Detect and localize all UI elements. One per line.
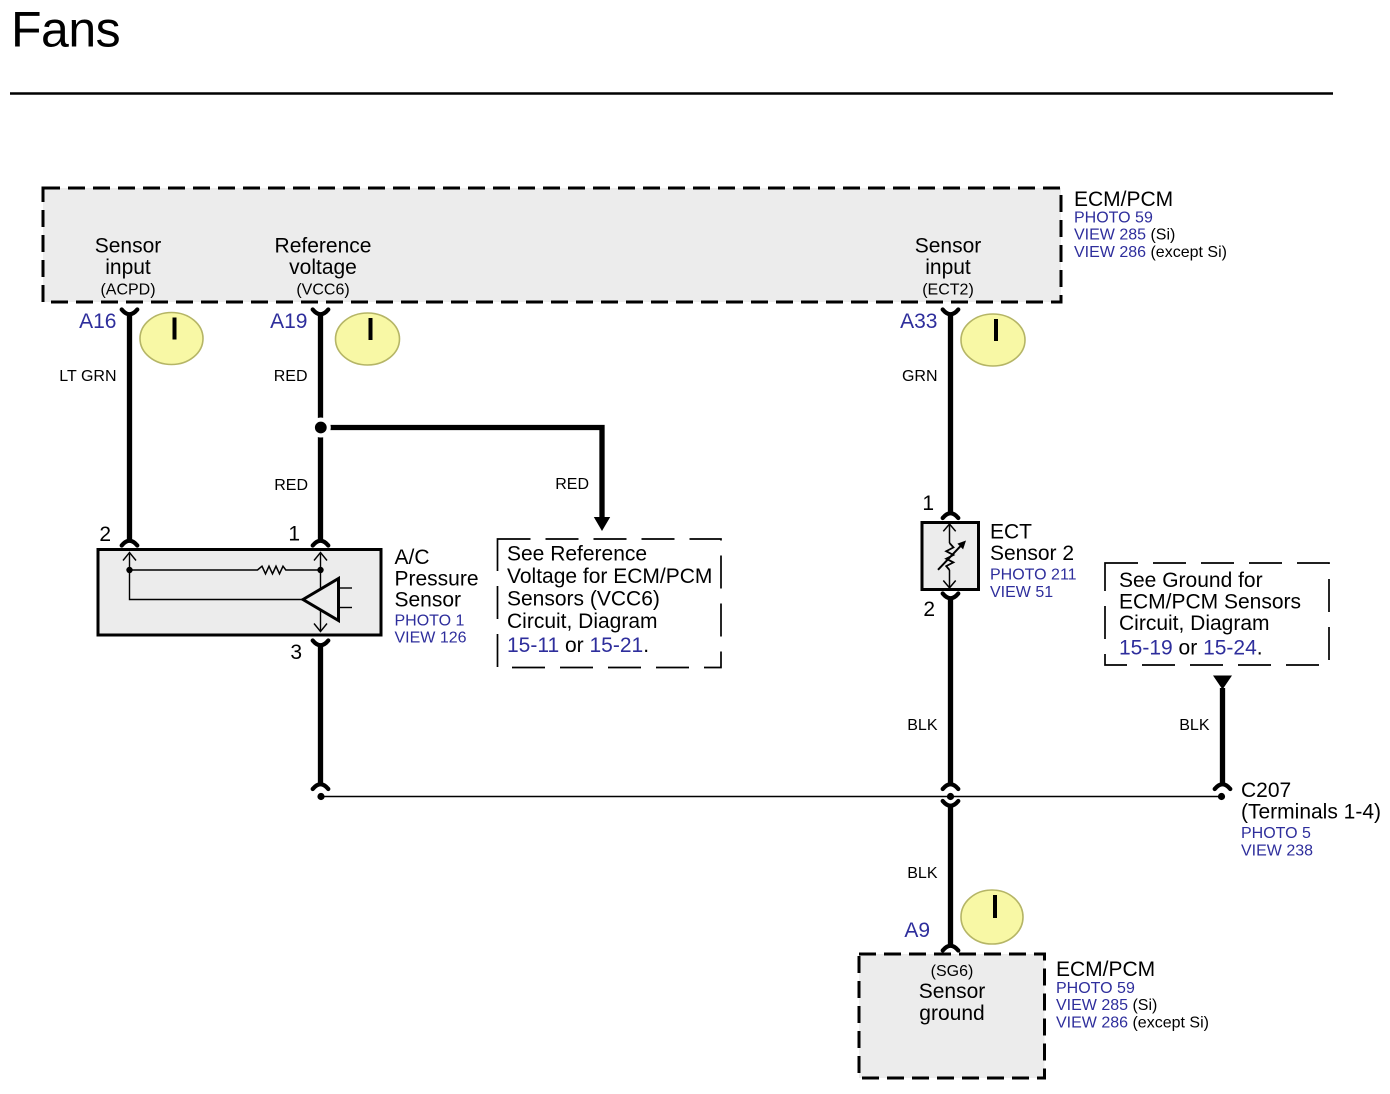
svg-text:voltage: voltage bbox=[289, 256, 357, 279]
svg-text:BLK: BLK bbox=[1179, 717, 1210, 734]
svg-text:A19: A19 bbox=[270, 310, 307, 333]
svg-text:BLK: BLK bbox=[907, 717, 938, 734]
svg-text:input: input bbox=[925, 256, 971, 279]
svg-text:See Ground for: See Ground for bbox=[1119, 569, 1263, 592]
connector symbol A16 (yellow) bbox=[140, 313, 203, 365]
svg-text:A/C: A/C bbox=[395, 546, 430, 569]
svg-text:(Terminals 1-4): (Terminals 1-4) bbox=[1241, 801, 1381, 824]
svg-text:RED: RED bbox=[274, 368, 308, 385]
label: Reference voltage (VCC6) bbox=[275, 235, 372, 299]
svg-text:3: 3 bbox=[290, 641, 302, 664]
svg-text:ECM/PCM Sensors: ECM/PCM Sensors bbox=[1119, 591, 1301, 614]
internal feedback line to amplifier bbox=[130, 570, 304, 600]
connector line C207 bbox=[321, 796, 1222, 798]
svg-text:Reference: Reference bbox=[275, 235, 372, 258]
pin A19 fork bbox=[313, 310, 329, 315]
label: ECM/PCM (top right) bbox=[1074, 188, 1227, 261]
pin A9 fork bbox=[943, 946, 959, 951]
svg-text:15-11 or 15-21.: 15-11 or 15-21. bbox=[507, 634, 649, 657]
label: C207 (Terminals 1-4) bbox=[1241, 779, 1381, 860]
svg-text:C207: C207 bbox=[1241, 779, 1291, 802]
svg-text:(ACPD): (ACPD) bbox=[100, 282, 155, 299]
branch wire RED to reference-voltage note bbox=[321, 428, 611, 532]
ECM/PCM connector box (top) bbox=[43, 188, 1061, 302]
svg-text:VIEW 285 (Si): VIEW 285 (Si) bbox=[1056, 997, 1157, 1014]
ECM/PCM sensor ground box (bottom) bbox=[859, 954, 1045, 1078]
wire LT GRN (A16 to A/C sensor pin 2) bbox=[127, 315, 132, 540]
A/C pressure sensor box bbox=[98, 550, 381, 636]
fork at C207 (left) bbox=[313, 784, 329, 789]
connector symbol A33 (yellow) bbox=[961, 314, 1025, 366]
svg-text:Sensor: Sensor bbox=[95, 235, 162, 258]
A/C sensor pin 1 fork bbox=[313, 541, 329, 546]
svg-text:PHOTO 5: PHOTO 5 bbox=[1241, 825, 1311, 842]
internal arrow up (pin 2) bbox=[123, 553, 136, 571]
internal node dot (pin 2) bbox=[126, 567, 132, 573]
svg-text:1: 1 bbox=[922, 492, 934, 515]
svg-text:PHOTO 1: PHOTO 1 bbox=[395, 613, 465, 630]
svg-text:Sensor: Sensor bbox=[919, 980, 986, 1003]
svg-text:Sensor: Sensor bbox=[395, 589, 462, 612]
svg-text:Sensor 2: Sensor 2 bbox=[990, 542, 1074, 565]
wire BLK (C207 to A9) bbox=[948, 807, 953, 945]
note box: See Reference Voltage bbox=[498, 539, 722, 668]
junction dot C207 middle bbox=[947, 793, 954, 800]
junction dot C207 right bbox=[1218, 793, 1225, 800]
note box: See Ground bbox=[1105, 563, 1329, 665]
svg-text:Circuit, Diagram: Circuit, Diagram bbox=[507, 610, 658, 633]
svg-text:VIEW 51: VIEW 51 bbox=[990, 584, 1053, 601]
svg-text:ECM/PCM: ECM/PCM bbox=[1056, 958, 1155, 981]
svg-text:input: input bbox=[105, 256, 151, 279]
svg-text:Circuit, Diagram: Circuit, Diagram bbox=[1119, 612, 1270, 635]
svg-text:Voltage for ECM/PCM: Voltage for ECM/PCM bbox=[507, 565, 712, 588]
svg-text:A33: A33 bbox=[900, 310, 937, 333]
svg-text:2: 2 bbox=[99, 523, 111, 546]
thermistor symbol bbox=[938, 524, 966, 588]
svg-text:Fans: Fans bbox=[11, 2, 120, 58]
label: Sensor input (ACPD) bbox=[95, 235, 162, 299]
ECT sensor 2 box bbox=[922, 523, 979, 590]
svg-text:RED: RED bbox=[555, 476, 589, 493]
label: A/C Pressure Sensor bbox=[395, 546, 479, 647]
label: ECT Sensor 2 bbox=[990, 521, 1077, 602]
svg-text:ECM/PCM: ECM/PCM bbox=[1074, 188, 1173, 211]
svg-text:VIEW 126: VIEW 126 bbox=[395, 630, 467, 647]
svg-text:(ECT2): (ECT2) bbox=[922, 282, 974, 299]
svg-text:Sensor: Sensor bbox=[915, 235, 982, 258]
title underline bbox=[10, 92, 1333, 95]
svg-text:GRN: GRN bbox=[902, 368, 938, 385]
pin A33 fork bbox=[943, 310, 959, 315]
ECT pin 2 fork bbox=[943, 594, 959, 599]
fork at C207 (middle top) bbox=[943, 784, 959, 789]
label: Sensor input (ECT2) bbox=[915, 235, 982, 299]
svg-text:VIEW 238: VIEW 238 bbox=[1241, 843, 1313, 860]
svg-text:PHOTO 211: PHOTO 211 bbox=[990, 567, 1077, 584]
arrow from ground note into BLK wire bbox=[1213, 676, 1232, 690]
label: ECM/PCM (bottom right) bbox=[1056, 958, 1209, 1032]
label: (SG6) Sensor ground bbox=[919, 963, 986, 1025]
wire BLK (ground note to C207) bbox=[1220, 688, 1225, 783]
svg-text:RED: RED bbox=[274, 477, 308, 494]
svg-text:BLK: BLK bbox=[907, 865, 938, 882]
wire RED (A19 to A/C sensor pin 1) bbox=[318, 315, 323, 540]
connector symbol A19 (yellow) bbox=[336, 313, 400, 365]
fork below C207 (to A9) bbox=[943, 801, 959, 806]
junction dot on A19 wire bbox=[311, 418, 331, 438]
wire BLK (A/C pin 3 down to C207) bbox=[318, 646, 323, 783]
svg-text:See Reference: See Reference bbox=[507, 543, 647, 566]
svg-text:LT GRN: LT GRN bbox=[59, 368, 116, 385]
A/C sensor pin 3 fork bbox=[313, 641, 329, 646]
junction dot C207 left bbox=[317, 793, 324, 800]
pin A16 fork bbox=[122, 310, 138, 315]
svg-text:Pressure: Pressure bbox=[395, 568, 479, 591]
fork at C207 (right) bbox=[1215, 784, 1231, 789]
svg-text:A16: A16 bbox=[79, 310, 116, 333]
internal vertical line with arrows (pin 1 to pin 3) bbox=[314, 553, 327, 632]
svg-text:Sensors (VCC6): Sensors (VCC6) bbox=[507, 588, 660, 611]
svg-text:ground: ground bbox=[919, 1002, 984, 1025]
svg-text:VIEW 286 (except Si): VIEW 286 (except Si) bbox=[1074, 244, 1227, 261]
connector symbol A9 (yellow) bbox=[961, 890, 1023, 944]
wire BLK (ECT pin 2 down to C207) bbox=[948, 599, 953, 783]
internal node dot (pin 1) bbox=[317, 567, 323, 573]
svg-text:2: 2 bbox=[923, 598, 935, 621]
svg-text:(VCC6): (VCC6) bbox=[296, 282, 349, 299]
svg-text:PHOTO 59: PHOTO 59 bbox=[1056, 980, 1135, 997]
internal amplifier triangle bbox=[303, 579, 339, 621]
svg-text:ECT: ECT bbox=[990, 521, 1032, 544]
svg-text:1: 1 bbox=[288, 523, 300, 546]
internal resistor between pins 2 and 1 bbox=[130, 566, 321, 574]
svg-text:PHOTO 59: PHOTO 59 bbox=[1074, 210, 1153, 227]
A/C sensor pin 2 fork bbox=[122, 541, 138, 546]
ECT sensor pin 1 fork bbox=[943, 513, 959, 518]
svg-text:15-19 or 15-24.: 15-19 or 15-24. bbox=[1119, 637, 1263, 660]
svg-text:VIEW 286 (except Si): VIEW 286 (except Si) bbox=[1056, 1015, 1209, 1032]
amplifier output stubs bbox=[339, 588, 353, 608]
svg-text:VIEW 285 (Si): VIEW 285 (Si) bbox=[1074, 227, 1175, 244]
wire GRN (A33 to ECT sensor pin 1) bbox=[948, 315, 953, 512]
svg-text:(SG6): (SG6) bbox=[931, 963, 974, 980]
svg-text:A9: A9 bbox=[904, 919, 930, 942]
